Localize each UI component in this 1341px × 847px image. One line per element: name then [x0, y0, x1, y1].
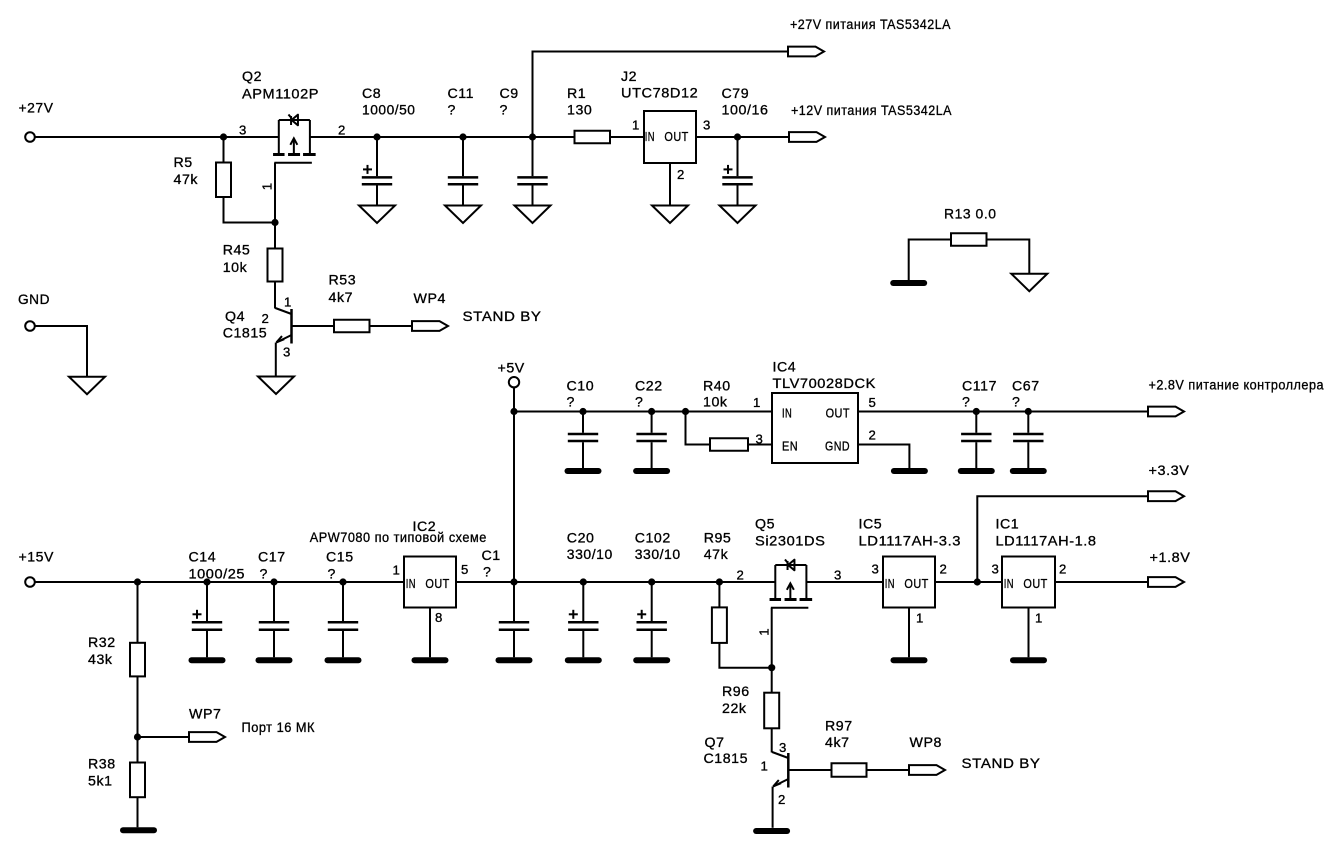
svg-text:R40: R40 — [703, 379, 731, 395]
svg-text:2: 2 — [940, 562, 948, 577]
svg-text:1000/25: 1000/25 — [189, 567, 246, 583]
resistor R32 43k — [88, 635, 145, 676]
ground C22 (bar) — [636, 468, 667, 474]
ground C11 — [445, 206, 481, 224]
ground IC1 (bar) — [1013, 657, 1044, 663]
svg-text:Q2: Q2 — [242, 69, 262, 85]
capacitor C11 ? — [448, 86, 479, 206]
svg-text:IC5: IC5 — [859, 517, 883, 533]
svg-text:IN: IN — [1004, 576, 1014, 591]
node +2.8V питание контроллера flag — [1148, 378, 1324, 417]
node +27V питания TAS5342LA flag — [788, 17, 951, 56]
node C102 junction — [648, 578, 655, 585]
ground C67 (bar) — [1013, 468, 1044, 474]
ground R13 right — [1011, 274, 1047, 292]
wire Q7 emitter down — [772, 787, 774, 828]
svg-text:4k7: 4k7 — [825, 735, 850, 751]
svg-text:Q7: Q7 — [705, 735, 725, 751]
svg-text:2: 2 — [1059, 562, 1067, 577]
wire +3.3V branch — [977, 496, 1148, 582]
svg-text:OUT: OUT — [1023, 576, 1047, 591]
node Q5 gate junction — [768, 664, 775, 671]
wire +15V rail left — [34, 581, 404, 583]
transistor Q4 C1815 — [223, 295, 292, 360]
capacitor C8 1000/50 — [362, 86, 416, 206]
svg-text:GND: GND — [825, 438, 850, 453]
wire R1 to J2 — [610, 136, 644, 138]
svg-text:10k: 10k — [223, 260, 248, 276]
regulator IC5 LD1117AH-3.3 — [859, 517, 962, 626]
ground C9 — [515, 206, 551, 224]
ground C14 (bar) — [192, 657, 223, 663]
svg-text:3: 3 — [872, 562, 880, 577]
ground C79 — [720, 206, 756, 224]
svg-text:2: 2 — [869, 428, 877, 443]
svg-text:3: 3 — [992, 562, 1000, 577]
wire +5V down — [513, 388, 515, 582]
svg-text:IC4: IC4 — [773, 360, 797, 376]
node gate junction — [271, 219, 278, 226]
svg-text:100/16: 100/16 — [722, 103, 769, 119]
ground C8 — [359, 206, 395, 224]
resistor R96 22k — [722, 668, 779, 729]
wire R45 to Q4 collector — [274, 282, 276, 309]
label Порт 16 МК — [242, 720, 316, 736]
capacitor C1 ? — [482, 548, 530, 657]
svg-text:?: ? — [635, 395, 643, 411]
svg-text:5k1: 5k1 — [88, 774, 113, 790]
wire Q5 drain to IC5 — [806, 581, 883, 583]
node R40 junction — [682, 408, 689, 415]
svg-text:R45: R45 — [223, 243, 251, 259]
node +3.3V flag — [1148, 463, 1190, 501]
svg-text:LD1117AH-1.8: LD1117AH-1.8 — [996, 533, 1097, 549]
svg-text:+2.8V питание контроллера: +2.8V питание контроллера — [1149, 378, 1325, 394]
node WP7 junction — [134, 733, 141, 740]
svg-text:3: 3 — [834, 568, 842, 583]
wire IC5 pin1 down — [908, 608, 910, 658]
ground GND terminal — [69, 377, 105, 395]
node GND terminal — [18, 292, 50, 331]
svg-text:WP8: WP8 — [910, 735, 942, 751]
wire IC4 GND — [858, 445, 909, 469]
svg-text:2: 2 — [677, 167, 685, 182]
svg-text:GND: GND — [18, 292, 50, 308]
svg-text:C11: C11 — [448, 86, 475, 102]
svg-text:R13 0.0: R13 0.0 — [944, 207, 997, 223]
wire J2 out — [696, 136, 789, 138]
wire R95 bottom to gate node — [719, 643, 771, 668]
svg-text:+27V питания TAS5342LA: +27V питания TAS5342LA — [790, 17, 951, 33]
svg-text:?: ? — [448, 103, 456, 119]
ground J2 — [652, 206, 688, 224]
transistor Q2 APM1102P — [239, 69, 346, 190]
node WP7 flag — [189, 707, 225, 742]
svg-text:2: 2 — [262, 311, 270, 326]
node C9 junction — [529, 133, 536, 140]
svg-text:C1: C1 — [482, 548, 501, 564]
svg-text:R95: R95 — [704, 530, 732, 546]
svg-text:Si2301DS: Si2301DS — [755, 533, 826, 549]
svg-text:C117: C117 — [962, 379, 997, 395]
svg-text:10k: 10k — [703, 395, 728, 411]
svg-text:WP7: WP7 — [189, 707, 221, 723]
svg-text:2: 2 — [778, 792, 786, 807]
svg-text:4k7: 4k7 — [329, 290, 354, 306]
wire Q7 base to R97 — [788, 769, 831, 771]
svg-text:R96: R96 — [722, 684, 750, 700]
ground IC5 (bar) — [894, 657, 925, 663]
svg-text:R32: R32 — [88, 635, 116, 651]
node WP8 flag — [909, 735, 945, 775]
capacitor C20 330/10 — [567, 530, 613, 657]
node +1.8V flag — [1148, 550, 1191, 587]
resistor R95 47k — [704, 530, 732, 643]
capacitor C67 ? — [1012, 379, 1044, 469]
wire R97 to WP8 — [867, 769, 910, 771]
svg-text:C79: C79 — [722, 86, 750, 102]
regulator J2 UTC78D12 — [621, 69, 711, 182]
svg-text:43k: 43k — [88, 652, 113, 668]
wire IC4 input rail — [514, 411, 772, 413]
node C10 junction — [579, 408, 586, 415]
svg-text:3: 3 — [756, 432, 764, 447]
svg-text:IN: IN — [885, 576, 895, 591]
label STAND BY (bottom) — [962, 756, 1041, 772]
svg-text:2: 2 — [737, 568, 745, 583]
svg-text:APM1102P: APM1102P — [242, 86, 319, 102]
capacitor C9 ? — [500, 86, 548, 206]
svg-text:OUT: OUT — [425, 576, 449, 591]
svg-text:?: ? — [500, 103, 508, 119]
svg-text:1: 1 — [753, 395, 761, 410]
wire R38 bottom — [137, 797, 139, 827]
svg-text:47k: 47k — [704, 547, 729, 563]
svg-text:+12V питания TAS5342LA: +12V питания TAS5342LA — [791, 103, 952, 119]
wire Q2 gate down — [274, 163, 276, 223]
svg-text:+3.3V: +3.3V — [1149, 463, 1190, 479]
svg-text:3: 3 — [239, 123, 247, 138]
transistor Q7 C1815 — [704, 735, 789, 807]
svg-text:IN: IN — [782, 406, 792, 421]
node +3.3V junction — [974, 578, 981, 585]
node C15 junction — [339, 578, 346, 585]
node C1 junction — [510, 578, 517, 585]
node +5V terminal — [498, 361, 525, 388]
wire R13 left — [909, 240, 951, 281]
svg-text:?: ? — [260, 567, 268, 583]
transistor Q5 Si2301DS — [737, 517, 842, 636]
capacitor C22 ? — [635, 379, 667, 469]
svg-text:1: 1 — [756, 628, 771, 636]
svg-text:22k: 22k — [722, 701, 747, 717]
label STAND BY (top) — [463, 309, 542, 325]
wire WP7 — [138, 736, 190, 738]
svg-text:WP4: WP4 — [414, 291, 446, 307]
svg-text:R1: R1 — [567, 86, 586, 102]
capacitor C79 100/16 — [722, 86, 769, 206]
ground C1 (bar) — [499, 657, 530, 663]
svg-text:+5V: +5V — [498, 361, 525, 377]
svg-text:330/10: 330/10 — [567, 547, 613, 563]
svg-text:IN: IN — [645, 129, 655, 144]
svg-text:5: 5 — [869, 395, 877, 410]
svg-text:C20: C20 — [567, 530, 595, 546]
wire R32 bottom — [137, 676, 139, 737]
svg-text:1: 1 — [393, 563, 401, 578]
svg-text:Q4: Q4 — [225, 309, 245, 325]
svg-text:STAND BY: STAND BY — [463, 309, 542, 325]
ground C117 (bar) — [961, 468, 992, 474]
node R95 junction — [716, 578, 723, 585]
capacitor C14 1000/25 — [189, 550, 246, 658]
ground R38 (bar) — [123, 827, 154, 833]
node +27V terminal — [19, 101, 54, 142]
svg-text:330/10: 330/10 — [635, 547, 681, 563]
svg-text:1: 1 — [916, 610, 924, 625]
node +12V питания TAS5342LA flag — [789, 103, 952, 142]
node C22 junction — [648, 408, 655, 415]
svg-text:1: 1 — [284, 295, 292, 310]
svg-text:STAND BY: STAND BY — [962, 756, 1041, 772]
svg-text:EN: EN — [782, 438, 798, 453]
svg-text:3: 3 — [703, 118, 711, 133]
resistor R53 4k7 — [329, 273, 370, 333]
node C67 junction — [1025, 408, 1032, 415]
svg-text:+27V: +27V — [19, 101, 54, 117]
svg-text:R5: R5 — [174, 155, 193, 171]
svg-text:5: 5 — [461, 562, 469, 577]
svg-text:R97: R97 — [825, 719, 853, 735]
wire +27V rail middle — [310, 136, 575, 138]
svg-text:1: 1 — [260, 182, 275, 190]
ground C102 (bar) — [636, 657, 667, 663]
ground C17 (bar) — [259, 657, 290, 663]
svg-text:3: 3 — [283, 345, 291, 360]
wire Q5 gate down — [771, 608, 773, 668]
wire R96 to Q7 collector — [771, 728, 773, 752]
svg-text:130: 130 — [567, 103, 592, 119]
resistor R13 0.0 — [944, 207, 997, 246]
node C11 junction — [459, 133, 466, 140]
wire R40 to EN — [748, 444, 772, 446]
wire +27V rail left — [34, 136, 278, 138]
ground IC2 (bar) — [415, 657, 446, 663]
svg-text:C67: C67 — [1012, 379, 1040, 395]
node C14 junction — [203, 578, 210, 585]
node C117 junction — [973, 408, 980, 415]
svg-text:IC1: IC1 — [996, 517, 1020, 533]
node junction R5/rail — [220, 133, 227, 140]
wire R5 top — [223, 137, 225, 163]
svg-text:C15: C15 — [326, 550, 354, 566]
capacitor C10 ? — [567, 379, 599, 469]
resistor R1 130 — [567, 86, 610, 143]
svg-text:R53: R53 — [329, 273, 357, 289]
ground Q7 (bar) — [756, 828, 787, 834]
svg-text:?: ? — [328, 567, 336, 583]
svg-text:C8: C8 — [362, 86, 381, 102]
wire R5 bottom to gate node — [224, 197, 276, 223]
ground IC4 (bar) — [894, 468, 925, 474]
node C20 junction — [580, 578, 587, 585]
wire IC2 pin8 down — [429, 608, 431, 658]
svg-text:Q5: Q5 — [755, 517, 775, 533]
wire R53 to WP4 — [370, 325, 413, 327]
svg-text:UTC78D12: UTC78D12 — [621, 86, 698, 102]
node C17 junction — [270, 578, 277, 585]
wire IC4 out rail — [858, 411, 1148, 413]
wire R13 right — [987, 240, 1030, 274]
capacitor C15 ? — [326, 550, 358, 658]
wire EN branch — [686, 412, 711, 445]
node +5V/IC4 junction — [510, 408, 517, 415]
svg-text:?: ? — [567, 395, 575, 411]
svg-text:C14: C14 — [189, 550, 217, 566]
svg-text:1: 1 — [632, 118, 640, 133]
node C8 junction — [373, 133, 380, 140]
capacitor C117 ? — [961, 379, 997, 469]
svg-text:+1.8V: +1.8V — [1150, 550, 1191, 566]
capacitor C17 ? — [258, 550, 289, 658]
svg-text:C17: C17 — [258, 550, 286, 566]
svg-text:OUT: OUT — [904, 576, 928, 591]
svg-text:1: 1 — [1035, 610, 1043, 625]
ground Q4 — [258, 377, 294, 395]
resistor R40 10k — [703, 379, 748, 451]
svg-text:OUT: OUT — [664, 129, 688, 144]
wire J2 pin2 down — [669, 163, 671, 206]
svg-text:1000/50: 1000/50 — [362, 103, 416, 119]
svg-text:C9: C9 — [500, 86, 519, 102]
svg-text:C1815: C1815 — [704, 751, 749, 767]
capacitor C102 330/10 — [635, 530, 681, 657]
svg-text:?: ? — [483, 565, 491, 581]
node C79 junction — [734, 133, 741, 140]
ground C15 (bar) — [328, 657, 359, 663]
wire Q4 emitter down — [275, 343, 277, 377]
svg-text:1: 1 — [761, 759, 769, 774]
svg-text:?: ? — [1012, 395, 1020, 411]
resistor R45 10k — [223, 223, 283, 282]
wire IC2 out rail — [456, 581, 775, 583]
svg-text:IN: IN — [406, 576, 416, 591]
svg-text:OUT: OUT — [826, 406, 850, 421]
svg-text:8: 8 — [435, 610, 443, 625]
svg-text:APW7080 по типовой схеме: APW7080 по типовой схеме — [310, 530, 487, 546]
regulator IC1 LD1117AH-1.8 — [992, 517, 1097, 626]
ground C20 (bar) — [568, 657, 599, 663]
node +15V terminal — [19, 550, 55, 587]
wire R32 top — [137, 582, 139, 643]
node WP4 flag — [412, 291, 448, 331]
svg-text:TLV70028DCK: TLV70028DCK — [773, 376, 876, 392]
svg-text:C10: C10 — [567, 379, 595, 395]
svg-text:3: 3 — [779, 740, 787, 755]
wire IC1 pin1 down — [1028, 608, 1030, 658]
resistor R5 47k — [174, 155, 232, 197]
svg-text:J2: J2 — [621, 69, 637, 85]
wire GND — [34, 326, 87, 377]
svg-text:?: ? — [962, 395, 970, 411]
svg-text:C22: C22 — [635, 379, 663, 395]
svg-text:Порт 16 МК: Порт 16 МК — [242, 720, 316, 736]
svg-text:47k: 47k — [174, 172, 199, 188]
node R32 junction — [134, 578, 141, 585]
wire Q4 base to R53 — [292, 325, 335, 327]
svg-text:C102: C102 — [635, 530, 671, 546]
svg-text:LD1117AH-3.3: LD1117AH-3.3 — [859, 533, 962, 549]
svg-text:+15V: +15V — [19, 550, 55, 566]
wire IC1 out — [1055, 581, 1148, 583]
ground C10 (bar) — [568, 468, 599, 474]
regulator IC2 APW7080 — [310, 519, 487, 625]
ground R13 left (bar) — [893, 280, 924, 286]
resistor R97 4k7 — [825, 719, 867, 777]
regulator IC4 TLV70028DCK — [753, 360, 876, 464]
svg-text:C1815: C1815 — [223, 326, 268, 342]
wire +27V branch up — [533, 52, 789, 138]
svg-text:R38: R38 — [88, 757, 116, 773]
svg-text:2: 2 — [338, 123, 346, 138]
resistor R38 5k1 — [88, 737, 145, 797]
wire IC5 out — [935, 581, 1002, 583]
